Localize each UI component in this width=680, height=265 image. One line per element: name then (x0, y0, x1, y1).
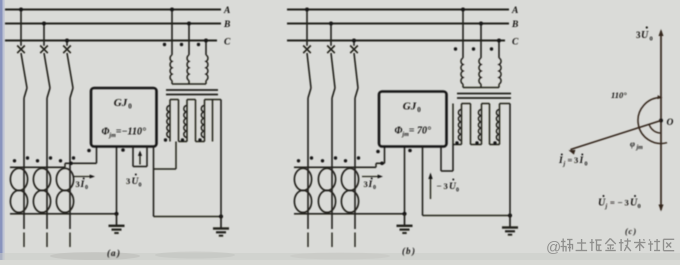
svg-text:3: 3 (574, 155, 578, 165)
svg-text:3: 3 (625, 198, 629, 208)
svg-text:B: B (511, 20, 518, 30)
svg-text:GJ: GJ (114, 97, 128, 109)
svg-text:110°: 110° (611, 90, 627, 100)
svg-text:3: 3 (126, 176, 130, 186)
svg-text:Φjm=−110°: Φjm=−110° (102, 127, 146, 140)
svg-text:−: − (437, 181, 442, 191)
svg-text:I: I (579, 156, 584, 166)
svg-text:j: j (563, 162, 566, 168)
svg-text:A: A (223, 6, 230, 16)
svg-text:φ: φ (630, 139, 635, 149)
svg-text:3: 3 (444, 181, 448, 191)
svg-text:0: 0 (85, 185, 88, 191)
svg-text:I: I (368, 180, 373, 190)
svg-text:C: C (224, 38, 231, 48)
svg-text:b: b (406, 246, 411, 256)
svg-text:U: U (641, 30, 649, 41)
svg-text:): ) (411, 246, 415, 256)
svg-text:Φjm= 70°: Φjm= 70° (395, 126, 431, 139)
svg-text:0: 0 (456, 188, 459, 194)
svg-text:0: 0 (139, 183, 142, 189)
svg-text:=: = (610, 198, 615, 208)
svg-text:a: a (111, 248, 116, 258)
svg-text:0: 0 (128, 103, 132, 111)
svg-text:A: A (511, 6, 518, 16)
svg-text:I: I (558, 156, 563, 166)
svg-text:GJ: GJ (403, 101, 417, 113)
svg-text:−: − (618, 198, 623, 208)
svg-text:I: I (80, 180, 85, 190)
svg-text:0: 0 (417, 106, 421, 114)
svg-text:0: 0 (585, 162, 588, 168)
svg-text:c: c (629, 227, 633, 236)
svg-text:O: O (667, 118, 674, 128)
svg-text:j: j (605, 204, 608, 210)
svg-text:0: 0 (638, 203, 641, 210)
svg-text:): ) (116, 248, 120, 258)
svg-text:3: 3 (76, 179, 80, 189)
svg-text:0: 0 (650, 36, 653, 43)
svg-text:@: @ (546, 239, 561, 256)
svg-text:C: C (512, 38, 519, 48)
svg-text:3: 3 (364, 179, 368, 189)
svg-text:0: 0 (373, 185, 376, 191)
svg-text:=: = (568, 155, 573, 165)
svg-text:jm: jm (636, 145, 644, 151)
svg-text:B: B (223, 20, 230, 30)
svg-text:): ) (633, 227, 637, 236)
